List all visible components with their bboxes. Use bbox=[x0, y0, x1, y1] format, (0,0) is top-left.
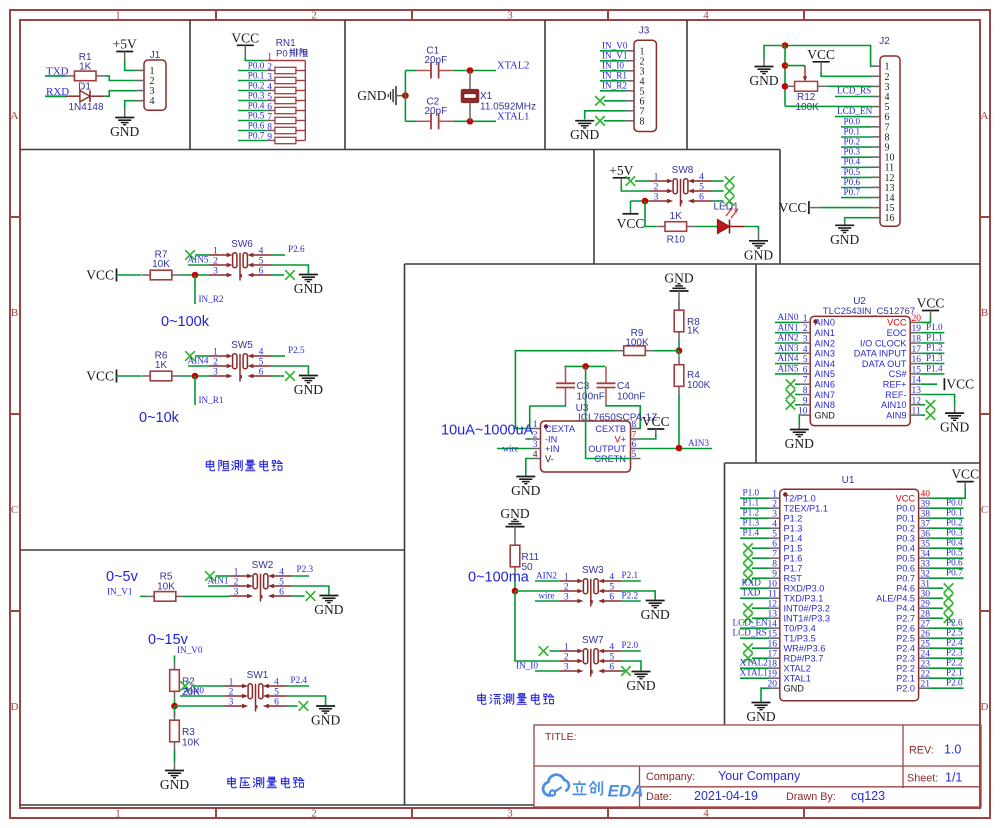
svg-text:VCC: VCC bbox=[807, 47, 835, 62]
svg-text:IN_V1: IN_V1 bbox=[107, 587, 133, 597]
svg-text:4: 4 bbox=[609, 573, 614, 583]
svg-text:AIN2: AIN2 bbox=[778, 333, 799, 343]
svg-text:5: 5 bbox=[609, 653, 614, 663]
resistor R7 bbox=[142, 250, 181, 280]
svg-text:AIN3: AIN3 bbox=[815, 349, 835, 359]
svg-text:2: 2 bbox=[564, 653, 569, 663]
svg-text:4: 4 bbox=[609, 643, 614, 653]
wire RXD to U1 pin 10 bbox=[740, 587, 770, 589]
svg-text:5: 5 bbox=[772, 530, 777, 540]
svg-text:8: 8 bbox=[772, 560, 777, 570]
svg-text:P0.5: P0.5 bbox=[896, 554, 915, 564]
svg-text:-IN: -IN bbox=[545, 434, 557, 444]
svg-text:1: 1 bbox=[654, 173, 659, 183]
svg-text:P1.4: P1.4 bbox=[926, 363, 943, 373]
wire P0.1 to U1 pin 38 bbox=[929, 517, 964, 519]
svg-text:XTAL1: XTAL1 bbox=[497, 111, 529, 122]
svg-text:1: 1 bbox=[803, 314, 808, 324]
wire gnd to junction bbox=[397, 95, 405, 97]
svg-text:6: 6 bbox=[279, 588, 284, 598]
wire P0.5 to RN1 bbox=[238, 120, 266, 122]
svg-text:GND: GND bbox=[500, 506, 529, 521]
net label P0.1 at J2 bbox=[844, 126, 861, 136]
svg-text:1K: 1K bbox=[79, 62, 92, 73]
wire junction to SW7 pin 2 bbox=[515, 591, 560, 661]
svg-text:4: 4 bbox=[699, 173, 704, 183]
svg-text:AIN9: AIN9 bbox=[886, 410, 906, 420]
wire P2.5 to U1 pin 26 bbox=[929, 637, 964, 639]
svg-text:100K: 100K bbox=[687, 380, 711, 391]
wire SW3 pin 5 to GND bbox=[622, 591, 655, 600]
wire U2 pin 8 stub bbox=[795, 394, 800, 396]
svg-text:P1.2: P1.2 bbox=[784, 514, 803, 524]
no-connect SW5 pin 1 bbox=[185, 351, 195, 361]
wire C1 to XTAL2 bbox=[453, 70, 496, 72]
net label P0.5 at J2 bbox=[844, 167, 861, 177]
ground stub at R3 bbox=[174, 751, 176, 771]
wire IN_R1 to J3 pin 4 bbox=[600, 80, 625, 82]
svg-text:REF+: REF+ bbox=[883, 380, 907, 390]
no-connect U1 pin 30 bbox=[944, 593, 954, 603]
svg-text:P0.3: P0.3 bbox=[946, 528, 963, 538]
svg-text:P0.0: P0.0 bbox=[844, 116, 861, 126]
power VCC at RN1 bbox=[231, 30, 259, 56]
no-connect SW2 pin 1 bbox=[205, 571, 215, 581]
svg-text:R3: R3 bbox=[182, 727, 195, 738]
net label AIN4 bbox=[188, 356, 209, 366]
svg-text:P2.2: P2.2 bbox=[946, 658, 963, 668]
svg-text:6: 6 bbox=[259, 267, 264, 277]
resistor R2 bbox=[170, 661, 200, 700]
svg-text:SW2: SW2 bbox=[252, 560, 274, 571]
stub GND to R8 bbox=[678, 291, 680, 311]
wire P0.7 to J2 pin 14 bbox=[841, 197, 871, 199]
net label LCD_EN at U1 bbox=[733, 618, 769, 628]
wire SW7 pin 4 bbox=[622, 650, 641, 652]
svg-text:P1.1: P1.1 bbox=[743, 498, 760, 508]
svg-text:5: 5 bbox=[274, 688, 279, 698]
svg-text:18: 18 bbox=[912, 335, 922, 345]
wire R5 to SW2 pin 3 bbox=[185, 595, 230, 597]
svg-text:10uA~1000uA: 10uA~1000uA bbox=[441, 423, 534, 439]
svg-text:+IN: +IN bbox=[545, 444, 560, 454]
annotation 电阻测量电路 bbox=[206, 460, 282, 471]
svg-text:Sheet:: Sheet: bbox=[907, 773, 938, 785]
net label AIN2 bbox=[536, 571, 557, 581]
net label RXD at U1 bbox=[742, 578, 762, 588]
switch SW6 bbox=[209, 239, 271, 281]
svg-text:P0.2: P0.2 bbox=[896, 524, 915, 534]
svg-text:P2.2: P2.2 bbox=[896, 664, 915, 674]
svg-text:4: 4 bbox=[274, 678, 279, 688]
svg-text:P1.0: P1.0 bbox=[743, 488, 760, 498]
svg-text:6: 6 bbox=[267, 103, 272, 113]
wire P0.2 to J2 pin 9 bbox=[841, 146, 871, 148]
wire U1 pin 31 stub bbox=[929, 587, 943, 589]
svg-text:1: 1 bbox=[564, 573, 569, 583]
ground stub at U3 bbox=[525, 475, 527, 477]
svg-text:P0.0: P0.0 bbox=[896, 504, 915, 514]
net label AIN4 at U2 bbox=[778, 353, 799, 363]
svg-text:P1.4: P1.4 bbox=[784, 534, 803, 544]
svg-text:P2.6: P2.6 bbox=[288, 244, 305, 254]
crystal X1 11.0592MHz bbox=[462, 71, 536, 122]
junction IN_R1 bbox=[192, 373, 199, 380]
resistor R3 bbox=[170, 712, 200, 751]
annotation 电压测量电路 bbox=[228, 777, 304, 788]
svg-text:INT0#/P3.2: INT0#/P3.2 bbox=[784, 604, 830, 614]
net label wire at U3 bbox=[503, 444, 519, 454]
svg-text:4: 4 bbox=[150, 96, 155, 107]
svg-text:SW8: SW8 bbox=[672, 165, 694, 176]
svg-text:P1.2: P1.2 bbox=[926, 343, 943, 353]
svg-text:AIN1: AIN1 bbox=[778, 322, 799, 332]
wire P0.1 to J2 pin 8 bbox=[841, 136, 871, 138]
wire P0.0 to U1 pin 39 bbox=[929, 507, 964, 509]
svg-text:GND: GND bbox=[511, 483, 540, 498]
wire junction to SW3 pin 2 bbox=[515, 590, 560, 592]
wire LCD_RS to J2 pin 4 bbox=[835, 96, 871, 98]
svg-text:P2.0: P2.0 bbox=[622, 640, 639, 650]
svg-text:1N4148: 1N4148 bbox=[68, 102, 103, 113]
svg-text:RN1: RN1 bbox=[276, 38, 296, 49]
svg-text:P1.3: P1.3 bbox=[926, 353, 943, 363]
svg-text:1: 1 bbox=[115, 808, 121, 820]
svg-text:IN_R1: IN_R1 bbox=[199, 395, 224, 405]
no-connect U2 pin 9 bbox=[786, 400, 796, 410]
ground stub at J2 bbox=[763, 60, 765, 67]
svg-text:P4.4: P4.4 bbox=[896, 604, 915, 614]
net label LCD_RS at U1 bbox=[733, 628, 767, 638]
power +5V at J1 bbox=[113, 37, 137, 61]
ground GND at J2 bbox=[749, 67, 778, 89]
wire R4 to AIN3 net bbox=[678, 395, 680, 448]
svg-text:3: 3 bbox=[533, 440, 538, 450]
net label P0.2 at RN1 bbox=[248, 80, 265, 90]
wire SW6 pin 5 to GND bbox=[271, 265, 308, 274]
wire RXD to D1 bbox=[45, 95, 65, 97]
svg-text:IN_V0: IN_V0 bbox=[177, 645, 203, 655]
svg-text:0~100k: 0~100k bbox=[161, 314, 210, 330]
net label AIN0 bbox=[183, 686, 204, 696]
svg-text:13: 13 bbox=[912, 386, 922, 396]
wire P0.4 to U1 pin 35 bbox=[929, 547, 964, 549]
svg-text:5: 5 bbox=[259, 358, 264, 368]
svg-text:EDA: EDA bbox=[608, 782, 644, 801]
net label P1.1 at U1 bbox=[743, 498, 760, 508]
svg-text:+5V: +5V bbox=[609, 163, 633, 178]
svg-text:12: 12 bbox=[912, 396, 922, 406]
svg-text:3: 3 bbox=[772, 510, 777, 520]
svg-text:AIN2: AIN2 bbox=[815, 338, 835, 348]
net label IN_V0 at J3 bbox=[602, 41, 628, 51]
svg-text:XTAL1: XTAL1 bbox=[740, 668, 769, 678]
wire crystal left rail bbox=[404, 71, 406, 122]
svg-text:GND: GND bbox=[314, 602, 343, 617]
stub VCC J2 pin 15 bbox=[809, 207, 820, 209]
wire junction to U3 pin 5 bbox=[586, 366, 631, 458]
svg-text:CEXTB: CEXTB bbox=[595, 424, 626, 434]
svg-text:TITLE:: TITLE: bbox=[545, 731, 577, 743]
resistor R8 bbox=[674, 302, 700, 341]
net label IN_V0 bbox=[177, 645, 203, 655]
wire IN_V1 stub bbox=[140, 595, 146, 597]
wire U1 pin 20 to GND bbox=[761, 688, 770, 701]
svg-text:6: 6 bbox=[609, 663, 614, 673]
net label P0.4 at U1 right bbox=[946, 538, 963, 548]
ground GND at J2 pin 16 bbox=[830, 225, 859, 247]
svg-text:6: 6 bbox=[274, 698, 279, 708]
annotation 0~5v bbox=[106, 569, 139, 585]
svg-text:4: 4 bbox=[703, 10, 709, 22]
wire R1 to J1 pin 2 bbox=[105, 76, 136, 81]
svg-text:P0.2: P0.2 bbox=[844, 137, 861, 147]
svg-text:XTAL2: XTAL2 bbox=[497, 61, 529, 72]
svg-text:P0.5: P0.5 bbox=[844, 167, 861, 177]
svg-text:P2.4: P2.4 bbox=[946, 638, 963, 648]
net label AIN5 bbox=[188, 255, 209, 265]
wire SW5 pin 5 to GND bbox=[271, 366, 308, 375]
wire R11 to junction bbox=[514, 576, 516, 592]
annotation 电流测量电路 bbox=[478, 693, 554, 704]
wire J2 pin 16 to GND bbox=[845, 218, 871, 223]
svg-text:P2.1: P2.1 bbox=[896, 674, 915, 684]
net label P2.2 bbox=[622, 591, 639, 601]
svg-text:P2.3: P2.3 bbox=[297, 564, 314, 574]
svg-text:3: 3 bbox=[213, 267, 218, 277]
ground stub at LED1 bbox=[758, 232, 760, 241]
svg-text:P1.3: P1.3 bbox=[784, 524, 803, 534]
net label AIN5 at U2 bbox=[778, 364, 799, 374]
wire J2 pin 1 loop bbox=[785, 46, 871, 67]
svg-text:P0.1: P0.1 bbox=[248, 70, 265, 80]
junction C3 C4 bbox=[582, 363, 589, 370]
svg-text:P0.7: P0.7 bbox=[896, 574, 915, 584]
wire SW2 pin 5 to GND bbox=[292, 586, 329, 595]
svg-text:XTAL2: XTAL2 bbox=[740, 658, 769, 668]
power VCC at J2 pin 15 bbox=[779, 200, 809, 215]
wire SW7 pin 6 bbox=[622, 670, 625, 672]
wire U2 pin 7 stub bbox=[795, 383, 800, 385]
svg-text:P0.2: P0.2 bbox=[946, 518, 963, 528]
svg-text:16: 16 bbox=[885, 213, 895, 224]
LED LED1 bbox=[714, 202, 745, 234]
svg-text:T1/P3.5: T1/P3.5 bbox=[784, 634, 816, 644]
net label P0.2 at J2 bbox=[844, 137, 861, 147]
svg-text:X1: X1 bbox=[480, 91, 493, 102]
ground GND at SW3 bbox=[641, 601, 670, 623]
net label P0.7 at J2 bbox=[844, 187, 861, 197]
junction XTAL2 bbox=[467, 67, 474, 74]
svg-text:P0.6: P0.6 bbox=[844, 177, 861, 187]
wire U1 pin 7 stub bbox=[752, 557, 770, 559]
wire C4 to U3 pin 8 bbox=[606, 404, 640, 428]
net label P1.2 at U1 bbox=[743, 508, 760, 518]
svg-text:U1: U1 bbox=[842, 475, 855, 486]
wire P0.6 to J2 pin 13 bbox=[841, 187, 871, 189]
ground GND above R8 bbox=[664, 270, 693, 291]
wire AIN2 to U2 pin 3 bbox=[775, 342, 800, 344]
power +5V at SW8 bbox=[609, 163, 633, 185]
svg-text:19: 19 bbox=[912, 324, 922, 334]
svg-text:REV:: REV: bbox=[909, 745, 934, 757]
net label P0.7 at U1 right bbox=[946, 568, 963, 578]
no-connect SW6 pin 1 bbox=[185, 250, 195, 260]
svg-text:P2.6: P2.6 bbox=[896, 624, 915, 634]
svg-text:GND: GND bbox=[570, 127, 599, 142]
wire P0.0 to RN1 bbox=[238, 70, 266, 72]
svg-text:IN_R1: IN_R1 bbox=[602, 71, 627, 81]
svg-text:GND: GND bbox=[294, 281, 323, 296]
net label AIN3 bbox=[688, 438, 709, 448]
svg-text:1: 1 bbox=[213, 348, 218, 358]
net label P0.4 at RN1 bbox=[248, 100, 265, 110]
svg-text:11.0592MHz: 11.0592MHz bbox=[480, 102, 536, 113]
net label P0.3 at J2 bbox=[844, 147, 861, 157]
junction R12 wiper bbox=[782, 62, 789, 69]
wire P0.4 to RN1 bbox=[238, 110, 266, 112]
wire U3 pin 2 stub bbox=[526, 438, 531, 440]
wire U3 pin 4 to GND bbox=[526, 459, 531, 475]
wire P0.1 to RN1 bbox=[238, 80, 266, 82]
svg-text:P0.4: P0.4 bbox=[844, 157, 861, 167]
svg-text:2: 2 bbox=[311, 10, 317, 22]
ground GND at J1 bbox=[110, 118, 139, 140]
no-connect SW8 bbox=[725, 196, 735, 206]
no-connect U2 pin 8 bbox=[786, 390, 796, 400]
svg-text:3: 3 bbox=[507, 10, 513, 22]
net label P2.3 bbox=[297, 564, 314, 574]
svg-text:AIN7: AIN7 bbox=[815, 390, 835, 400]
svg-text:2: 2 bbox=[311, 808, 317, 820]
svg-text:+5V: +5V bbox=[113, 37, 137, 52]
svg-text:20: 20 bbox=[912, 314, 922, 324]
no-connect U1 pin 8 bbox=[743, 563, 753, 573]
svg-text:VCC: VCC bbox=[617, 216, 645, 231]
wire J3 pin 7 to GND bbox=[585, 111, 626, 120]
wire IN_R2 stub bbox=[194, 275, 196, 304]
svg-text:XTAL1: XTAL1 bbox=[784, 674, 811, 684]
wire J3 pin 8 stub bbox=[604, 120, 625, 122]
wire P0.3 to U1 pin 36 bbox=[929, 537, 964, 539]
wire XTAL1 to U1 pin 19 bbox=[740, 677, 770, 679]
svg-text:2: 2 bbox=[234, 578, 239, 588]
switch SW8 bbox=[650, 165, 712, 207]
wire SW7 pin 1 bbox=[550, 650, 560, 652]
svg-text:SW1: SW1 bbox=[247, 670, 269, 681]
net label P2.1 bbox=[622, 570, 639, 580]
svg-text:9: 9 bbox=[772, 570, 777, 580]
wire AIN5 to SW6 pin 2 bbox=[188, 264, 209, 266]
net label P0.6 at U1 right bbox=[946, 558, 963, 568]
wire AIN0 to SW1 pin 2 bbox=[180, 695, 225, 697]
power VCC at U2 bbox=[917, 296, 945, 317]
svg-text:P2.0: P2.0 bbox=[896, 684, 915, 694]
svg-text:OUTPUT: OUTPUT bbox=[588, 444, 626, 454]
wire P2.0 to U1 pin 21 bbox=[929, 687, 964, 689]
no-connect U1 pin 12 bbox=[743, 603, 753, 613]
svg-text:6: 6 bbox=[699, 193, 704, 203]
wire P1.3 to U1 pin 4 bbox=[740, 527, 770, 529]
wire U1 pin 13 stub bbox=[752, 617, 770, 619]
svg-text:7: 7 bbox=[803, 376, 808, 386]
wire C3 C4 tops bbox=[564, 365, 605, 367]
wire SW8 pin 1 stub bbox=[635, 180, 650, 182]
svg-text:100K: 100K bbox=[796, 102, 820, 113]
svg-text:5: 5 bbox=[609, 583, 614, 593]
svg-text:B: B bbox=[981, 307, 988, 319]
wire P1.1 to U1 pin 2 bbox=[740, 507, 770, 509]
wire SW1 pin 4 bbox=[287, 685, 310, 687]
wire P0.0 to J2 pin 7 bbox=[841, 126, 871, 128]
resistor R9 bbox=[615, 328, 654, 356]
svg-text:J3: J3 bbox=[639, 26, 650, 37]
svg-text:2: 2 bbox=[533, 431, 538, 441]
wire AIN4 to U2 pin 5 bbox=[775, 363, 800, 365]
wire VCC to U2 pin 20 bbox=[920, 317, 930, 323]
no-connect U1 pin 9 bbox=[743, 573, 753, 583]
svg-text:LCD_EN: LCD_EN bbox=[837, 106, 873, 116]
svg-text:CS#: CS# bbox=[889, 369, 908, 379]
wire IN_R1 stub bbox=[194, 376, 196, 405]
wire net wire to U3 pin 3 bbox=[497, 448, 531, 450]
no-connect U1 pin 31 bbox=[944, 583, 954, 593]
annotation 0~15v bbox=[148, 632, 189, 648]
no-connect U1 pin 17 bbox=[743, 653, 753, 663]
resistor R6 bbox=[142, 351, 181, 381]
wire P1.4 to U1 pin 5 bbox=[740, 537, 770, 539]
wire SW8 right row bbox=[712, 180, 724, 182]
svg-text:P2.7: P2.7 bbox=[896, 614, 915, 624]
svg-text:P2.4: P2.4 bbox=[896, 644, 915, 654]
svg-text:P0.0: P0.0 bbox=[946, 498, 963, 508]
svg-text:CEXTA: CEXTA bbox=[545, 424, 576, 434]
svg-text:1: 1 bbox=[234, 568, 239, 578]
wire U1 pin 12 stub bbox=[752, 607, 770, 609]
switch SW3 bbox=[560, 565, 622, 607]
svg-text:100nF: 100nF bbox=[617, 391, 645, 402]
svg-text:SW5: SW5 bbox=[231, 340, 253, 351]
svg-text:T0/P3.4: T0/P3.4 bbox=[784, 624, 816, 634]
wire to GND at J2 bbox=[764, 46, 785, 60]
svg-text:P1.5: P1.5 bbox=[784, 544, 803, 554]
wire U2 pin 12 stub bbox=[920, 404, 925, 406]
wire J2 left rail bbox=[784, 46, 786, 107]
wire R6 to SW5 pin 3 bbox=[181, 375, 210, 377]
net label IN_V1 at J3 bbox=[602, 51, 628, 61]
wire P0.5 to U1 pin 34 bbox=[929, 557, 964, 559]
no-connect SW1 pin 1 bbox=[180, 681, 190, 691]
wire SW2 pin 4 bbox=[292, 575, 310, 577]
svg-text:Company:: Company: bbox=[646, 771, 695, 783]
wire junction to R3 bbox=[174, 706, 176, 716]
svg-text:5: 5 bbox=[699, 183, 704, 193]
svg-text:P0.3: P0.3 bbox=[248, 90, 265, 100]
net label AIN2 at U2 bbox=[778, 333, 799, 343]
wire P0.2 to RN1 bbox=[238, 90, 266, 92]
svg-text:AIN5: AIN5 bbox=[815, 369, 835, 379]
wire U1 pin 28 stub bbox=[929, 617, 943, 619]
svg-text:P2.1: P2.1 bbox=[946, 668, 963, 678]
svg-text:2: 2 bbox=[213, 358, 218, 368]
connector J1 bbox=[136, 50, 166, 110]
ground GND at R3 bbox=[160, 771, 189, 793]
svg-text:J2: J2 bbox=[879, 36, 890, 47]
wire to C2 bbox=[405, 120, 416, 122]
svg-text:1: 1 bbox=[267, 53, 272, 63]
net label P0.3 at U1 right bbox=[946, 528, 963, 538]
wire TXD to R1 bbox=[45, 75, 65, 77]
